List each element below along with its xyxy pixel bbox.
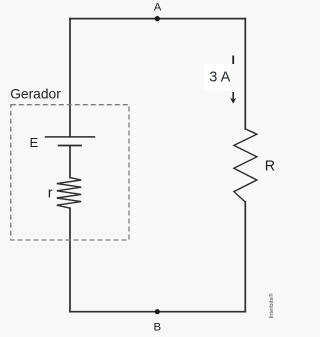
- svg-text:I: I: [231, 53, 234, 67]
- svg-text:Interbits®: Interbits®: [268, 293, 275, 319]
- svg-text:R: R: [265, 159, 275, 175]
- svg-text:A: A: [154, 2, 162, 14]
- svg-text:E: E: [30, 135, 39, 150]
- svg-text:B: B: [153, 321, 161, 333]
- svg-text:Gerador: Gerador: [10, 86, 61, 101]
- svg-text:r: r: [48, 185, 53, 201]
- svg-text:3 A: 3 A: [209, 70, 230, 86]
